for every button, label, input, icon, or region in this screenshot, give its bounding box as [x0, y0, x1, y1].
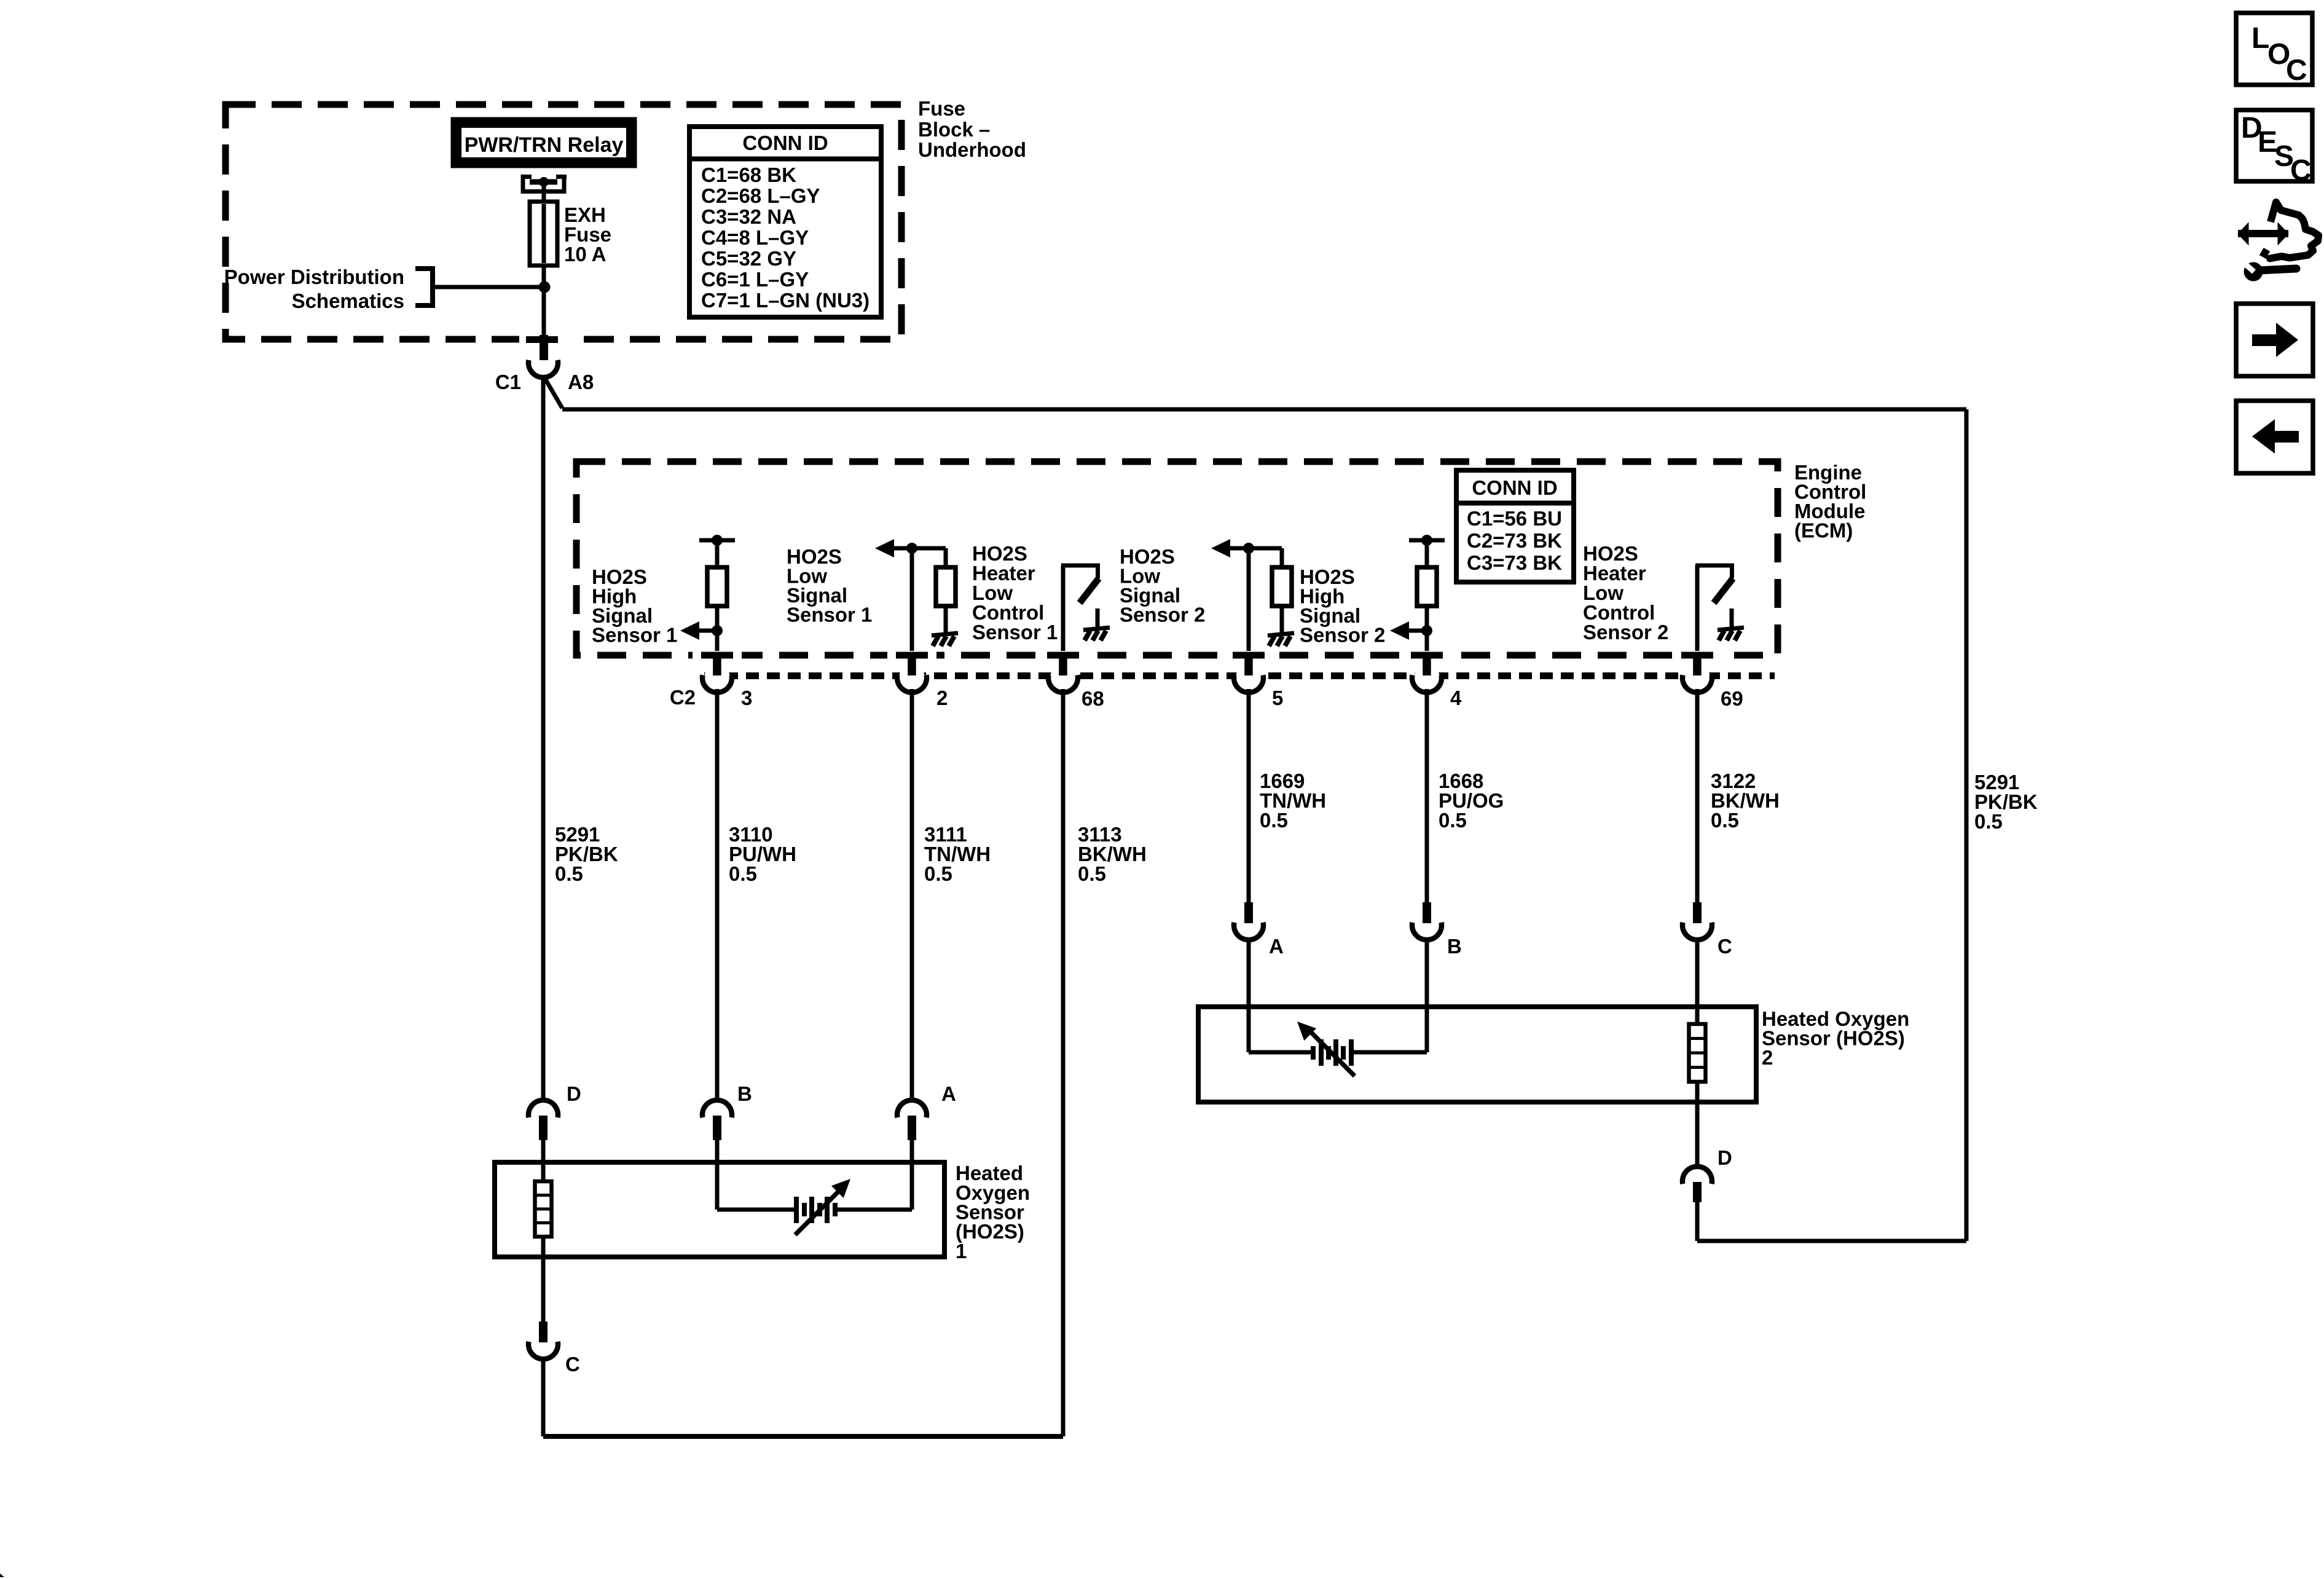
icon DESC box	[2236, 110, 2312, 187]
svg-text:3: 3	[741, 687, 752, 709]
signal arrow sensor 2 low	[1230, 546, 1282, 551]
wire to battery right	[1351, 1050, 1427, 1055]
svg-text:2: 2	[936, 687, 948, 709]
wire 3110 pin3 to HO2S1 B	[715, 689, 720, 1100]
node supply bar sensor1 high	[699, 538, 735, 543]
wire 1669 pin5 to HO2S2 A	[1247, 689, 1251, 902]
connector A HO2S1	[897, 1100, 927, 1162]
svg-text:69: 69	[1721, 687, 1743, 710]
wire to battery left	[717, 1208, 797, 1212]
label HO2S high signal sensor 2	[1300, 565, 1385, 647]
ECM connector dashed line	[704, 672, 1775, 679]
heated oxygen sensor 1 box	[495, 1162, 944, 1257]
page corner mark	[0, 1573, 4, 1577]
wire pin 69 riser	[1695, 565, 1700, 652]
fuse block label	[918, 97, 1026, 161]
heated oxygen sensor 2 box	[1198, 1007, 1756, 1102]
svg-text:A: A	[941, 1082, 956, 1105]
svg-text:C1: C1	[495, 371, 521, 393]
sense cell battery HO2S1	[795, 1179, 850, 1235]
svg-text:Sensor (HO2S): Sensor (HO2S)	[1762, 1027, 1905, 1050]
wire 5291 diagonal branch	[543, 376, 562, 408]
label HO2S heater low control sensor 1	[972, 542, 1058, 644]
svg-text:C2: C2	[670, 686, 696, 709]
wire 3113 pin68 down	[1061, 689, 1066, 1436]
wire label 3122	[1711, 770, 1780, 832]
svg-text:CONN ID: CONN ID	[742, 132, 828, 154]
wire to battery right	[836, 1208, 912, 1212]
svg-text:Sensor 1: Sensor 1	[787, 604, 872, 626]
svg-text:Fuse: Fuse	[918, 97, 965, 120]
wire relay to fuse	[542, 182, 546, 342]
connector B HO2S1	[702, 1100, 732, 1162]
fuse block underhood dashed box	[226, 104, 901, 339]
wire heater feed inside box	[541, 1140, 546, 1321]
wire A inside box	[910, 1162, 914, 1210]
wire A inside box	[1247, 1007, 1251, 1052]
svg-text:68: 68	[1082, 687, 1104, 710]
wire stub	[1280, 606, 1284, 634]
wire	[715, 606, 720, 652]
svg-text:C1=68 BK: C1=68 BK	[701, 163, 796, 186]
signal arrow sensor 2 high	[1408, 629, 1427, 633]
label HO2S low signal sensor 2	[1120, 545, 1205, 626]
wire pin 68 riser	[1061, 565, 1066, 652]
connector pin 3	[693, 651, 742, 693]
svg-text:0.5: 0.5	[555, 862, 583, 885]
heater element HO2S1	[535, 1181, 552, 1237]
svg-text:4: 4	[1450, 687, 1462, 709]
icon vehicle service	[2238, 202, 2318, 282]
svg-text:C3=73 BK: C3=73 BK	[1467, 551, 1562, 574]
svg-text:2: 2	[1762, 1046, 1773, 1069]
svg-text:10 A: 10 A	[564, 243, 606, 266]
svg-text:Sensor 1: Sensor 1	[592, 624, 677, 647]
wire 3113 bottom run	[543, 1434, 1063, 1439]
signal arrow sensor 1 low	[894, 546, 946, 551]
connector D HO2S1	[528, 1100, 558, 1162]
resistor high signal sensor 1	[707, 567, 727, 606]
wire 5291 bottom horizontal run	[1697, 1239, 1966, 1243]
engine control module dashed box	[576, 462, 1778, 655]
label heated oxygen sensor 1	[956, 1162, 1030, 1262]
svg-text:C7=1 L–GN (NU3): C7=1 L–GN (NU3)	[701, 289, 870, 312]
wire stub	[944, 606, 948, 634]
svg-text:C: C	[565, 1353, 580, 1376]
wire	[715, 540, 720, 567]
wire label 1669	[1260, 770, 1326, 832]
ground low signal sensor 2	[1268, 633, 1294, 646]
power distribution label	[224, 266, 404, 312]
wire pin 2	[910, 548, 914, 652]
wire	[1425, 606, 1429, 652]
svg-text:C: C	[2290, 154, 2312, 187]
svg-text:L: L	[2251, 22, 2269, 55]
svg-text:0.5: 0.5	[1078, 862, 1106, 885]
svg-text:0.5: 0.5	[1974, 810, 2003, 833]
relay contact	[521, 175, 567, 194]
connector pin 4	[1402, 651, 1451, 693]
svg-text:C5=32 GY: C5=32 GY	[701, 247, 796, 270]
relay PWR/TRN box	[453, 119, 635, 166]
wire label 5291 right	[1974, 771, 2038, 833]
svg-text:C2=68 L–GY: C2=68 L–GY	[701, 184, 820, 207]
connector pin 68	[1038, 651, 1088, 693]
svg-text:Sensor 2: Sensor 2	[1120, 604, 1205, 626]
svg-text:Sensor 2: Sensor 2	[1583, 621, 1668, 644]
svg-text:0.5: 0.5	[729, 862, 757, 885]
node high signal tap sensor 2	[1421, 625, 1432, 636]
svg-text:C4=8 L–GY: C4=8 L–GY	[701, 226, 809, 249]
wire label 1668	[1439, 770, 1504, 832]
svg-text:B: B	[1447, 935, 1462, 958]
fuse EXH 10A	[530, 202, 557, 266]
wire 5291 right vertical run	[1965, 409, 1969, 1241]
wire B inside box	[715, 1162, 720, 1210]
wire label 3113	[1078, 823, 1147, 885]
ECM CONN ID table	[1456, 470, 1574, 582]
wire pin 5	[1247, 548, 1251, 652]
svg-text:Power Distribution: Power Distribution	[224, 266, 404, 288]
svg-text:(ECM): (ECM)	[1794, 519, 1853, 542]
node junction fuse output	[539, 282, 551, 293]
svg-text:C: C	[2286, 54, 2307, 87]
wire	[1425, 540, 1429, 567]
svg-text:0.5: 0.5	[924, 862, 952, 885]
switch blade	[1080, 578, 1099, 603]
icon forward arrow box	[2236, 304, 2313, 376]
connector pin 2	[887, 651, 936, 693]
svg-text:0.5: 0.5	[1711, 809, 1739, 832]
svg-text:Sensor 2: Sensor 2	[1300, 624, 1385, 647]
wire B inside box	[1425, 1007, 1429, 1052]
svg-text:A: A	[1269, 935, 1284, 958]
power distribution bracket	[415, 266, 435, 308]
sense cell battery HO2S2	[1297, 1022, 1355, 1076]
svg-text:1: 1	[956, 1240, 967, 1262]
svg-text:0.5: 0.5	[1439, 809, 1467, 832]
wire stub	[944, 548, 948, 567]
heater element HO2S2	[1689, 1024, 1706, 1082]
svg-text:D: D	[567, 1082, 581, 1105]
label heated oxygen sensor 2	[1762, 1007, 1909, 1069]
svg-text:D: D	[1717, 1146, 1732, 1169]
connector D HO2S2	[1682, 1167, 1712, 1241]
svg-text:Schematics: Schematics	[292, 289, 404, 312]
fuse block CONN ID table	[689, 127, 881, 317]
svg-text:B: B	[737, 1082, 752, 1105]
wire 1668 pin4 to HO2S2 B	[1425, 689, 1429, 902]
ground low signal sensor 1	[932, 633, 958, 646]
svg-text:Underhood: Underhood	[918, 138, 1026, 161]
wire 5291 top horizontal run	[562, 408, 1966, 412]
svg-text:C: C	[1717, 935, 1732, 958]
resistor low signal sensor 1	[936, 567, 956, 606]
icon back arrow box	[2236, 401, 2313, 473]
wire label 3110	[729, 823, 796, 885]
ECM pin labels	[670, 686, 1743, 710]
svg-text:A8: A8	[568, 371, 594, 393]
svg-text:C1=56 BU: C1=56 BU	[1467, 507, 1562, 530]
label HO2S heater low control sensor 2	[1583, 542, 1668, 644]
svg-text:CONN ID: CONN ID	[1472, 476, 1557, 499]
svg-text:C2=73 BK: C2=73 BK	[1467, 529, 1562, 552]
wire stub	[1280, 548, 1284, 567]
svg-text:0.5: 0.5	[1260, 809, 1288, 832]
switch top bar	[1061, 564, 1100, 578]
connector C HO2S1	[528, 1321, 558, 1436]
node low signal tap sensor 2	[1243, 543, 1254, 554]
wire label 3111	[924, 823, 991, 885]
icon LOC box	[2236, 13, 2312, 87]
connector pin 69	[1673, 651, 1722, 693]
connector C1 pin A8	[519, 336, 568, 344]
ground stub heater control sensor 2	[1730, 608, 1734, 629]
wire label 5291 left	[555, 823, 618, 885]
label HO2S low signal sensor 1	[787, 545, 872, 626]
resistor high signal sensor 2	[1417, 567, 1437, 606]
connector A HO2S2	[1234, 902, 1263, 1007]
ECM label	[1794, 461, 1866, 542]
switch top bar	[1695, 564, 1734, 578]
svg-text:Sensor 1: Sensor 1	[972, 621, 1058, 644]
signal arrow sensor 1 high	[699, 629, 717, 633]
node high signal tap sensor 1	[712, 625, 723, 636]
wire 3122 pin69 to HO2S2 C	[1695, 689, 1700, 902]
svg-text:PWR/TRN Relay: PWR/TRN Relay	[465, 133, 624, 157]
connector pin 5	[1224, 651, 1273, 693]
ground stub heater control sensor 1	[1096, 608, 1100, 629]
label HO2S high signal sensor 1	[592, 565, 677, 647]
node supply bar sensor2 high	[1409, 538, 1445, 543]
node low signal tap sensor 1	[906, 543, 917, 554]
wire heater to box bottom	[1695, 1082, 1700, 1165]
wire 5291 from A8 down	[541, 377, 546, 1100]
wire to battery left	[1249, 1050, 1314, 1055]
switch blade	[1714, 578, 1733, 603]
svg-text:5: 5	[1272, 687, 1283, 709]
connector C HO2S2	[1682, 902, 1712, 1024]
svg-text:C3=32 NA: C3=32 NA	[701, 205, 796, 228]
resistor low signal sensor 2	[1272, 567, 1292, 606]
connector B HO2S2	[1412, 902, 1442, 1007]
wire power distribution feed	[433, 285, 544, 289]
wire 3111 pin2 to HO2S1 A	[910, 689, 914, 1100]
svg-text:C6=1 L–GY: C6=1 L–GY	[701, 268, 809, 291]
svg-text:Block –: Block –	[918, 118, 990, 141]
